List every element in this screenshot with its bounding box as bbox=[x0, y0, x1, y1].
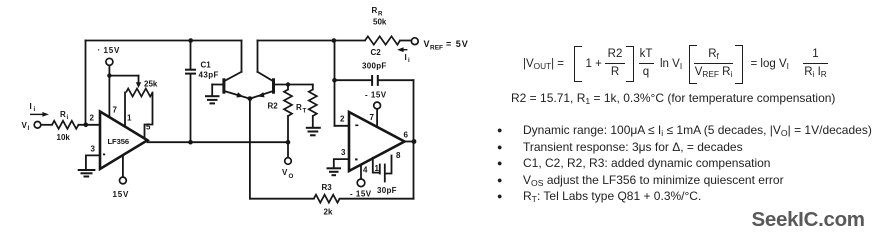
svg-text:i: i bbox=[34, 106, 36, 113]
svg-text:15V: 15V bbox=[113, 190, 130, 199]
svg-text:7: 7 bbox=[370, 113, 375, 122]
svg-text:15V: 15V bbox=[104, 46, 121, 55]
svg-text:10k: 10k bbox=[57, 133, 71, 142]
svg-text:5: 5 bbox=[146, 123, 151, 132]
svg-text:25k: 25k bbox=[144, 80, 158, 89]
svg-text:REF: REF bbox=[430, 45, 443, 52]
svg-text:C1: C1 bbox=[201, 61, 212, 70]
svg-text:LF356: LF356 bbox=[108, 137, 129, 146]
svg-text:R2: R2 bbox=[268, 102, 279, 111]
svg-text:1: 1 bbox=[127, 114, 132, 123]
svg-text:I: I bbox=[30, 102, 32, 111]
svg-text:2: 2 bbox=[340, 115, 345, 124]
svg-text:R: R bbox=[60, 110, 66, 119]
svg-text:4: 4 bbox=[363, 166, 368, 175]
svg-text:V: V bbox=[282, 168, 288, 177]
svg-text:6: 6 bbox=[404, 131, 409, 140]
svg-text:7: 7 bbox=[113, 106, 118, 115]
svg-text:= 5V: = 5V bbox=[446, 39, 469, 49]
svg-text:43pF: 43pF bbox=[199, 71, 219, 80]
svg-text:R: R bbox=[378, 11, 383, 18]
svg-text:1: 1 bbox=[375, 164, 380, 173]
svg-text:V: V bbox=[424, 39, 430, 49]
svg-text:2: 2 bbox=[90, 114, 95, 123]
svg-text:C2: C2 bbox=[371, 48, 382, 57]
svg-text:O: O bbox=[289, 173, 294, 180]
svg-text:R: R bbox=[372, 6, 378, 15]
svg-text:2k: 2k bbox=[324, 208, 333, 217]
svg-text:i: i bbox=[408, 57, 410, 64]
svg-text:T: T bbox=[303, 108, 307, 115]
svg-text:i: i bbox=[67, 114, 69, 121]
svg-text:50k: 50k bbox=[373, 18, 387, 27]
svg-text:3: 3 bbox=[341, 148, 346, 157]
svg-text:- 15V: - 15V bbox=[350, 190, 372, 199]
svg-text:3: 3 bbox=[91, 145, 96, 154]
svg-text:300pF: 300pF bbox=[362, 62, 387, 71]
svg-text:I: I bbox=[28, 125, 30, 132]
svg-text:- 15V: - 15V bbox=[365, 91, 387, 100]
svg-text:R: R bbox=[296, 103, 302, 112]
svg-text:30pF: 30pF bbox=[377, 186, 397, 195]
svg-text:·: · bbox=[98, 46, 101, 55]
svg-text:8: 8 bbox=[396, 151, 401, 160]
svg-text:I: I bbox=[405, 53, 407, 62]
svg-text:R3: R3 bbox=[322, 183, 333, 192]
